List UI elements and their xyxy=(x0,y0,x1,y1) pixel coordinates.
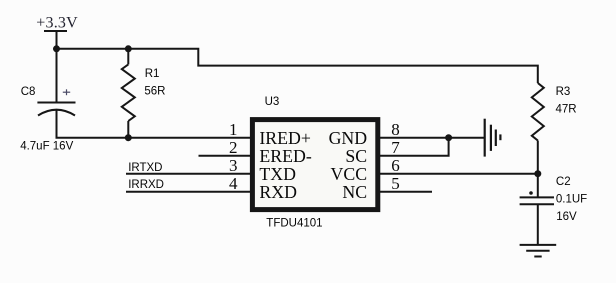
svg-text:6: 6 xyxy=(391,156,400,175)
svg-text:GND: GND xyxy=(329,128,368,148)
svg-text:IRRXD: IRRXD xyxy=(128,179,164,191)
svg-text:3: 3 xyxy=(229,156,238,175)
svg-text:NC: NC xyxy=(342,182,367,202)
svg-text:ERED-: ERED- xyxy=(259,146,311,166)
svg-text:47R: 47R xyxy=(556,104,577,116)
svg-text:IRED+: IRED+ xyxy=(259,128,311,148)
svg-text:+3.3V: +3.3V xyxy=(36,14,78,31)
svg-text:8: 8 xyxy=(391,120,400,139)
svg-text:56R: 56R xyxy=(144,85,165,97)
svg-text:7: 7 xyxy=(391,138,400,157)
svg-text:IRTXD: IRTXD xyxy=(128,162,162,174)
svg-text:RXD: RXD xyxy=(259,182,297,202)
svg-text:TXD: TXD xyxy=(259,164,296,184)
svg-text:5: 5 xyxy=(391,174,400,193)
svg-text:1: 1 xyxy=(229,120,238,139)
svg-text:2: 2 xyxy=(229,138,238,157)
svg-text:4: 4 xyxy=(229,174,238,193)
svg-text:16V: 16V xyxy=(556,211,577,223)
svg-text:C8: C8 xyxy=(21,86,36,98)
svg-text:R3: R3 xyxy=(556,86,571,98)
svg-text:4.7uF 16V: 4.7uF 16V xyxy=(20,140,73,152)
svg-text:SC: SC xyxy=(345,146,367,166)
svg-text:0.1UF: 0.1UF xyxy=(556,194,587,206)
svg-text:U3: U3 xyxy=(265,96,280,108)
svg-text:VCC: VCC xyxy=(331,164,368,184)
svg-text:R1: R1 xyxy=(145,68,160,80)
svg-text:TFDU4101: TFDU4101 xyxy=(266,218,322,230)
svg-text:C2: C2 xyxy=(556,176,571,188)
